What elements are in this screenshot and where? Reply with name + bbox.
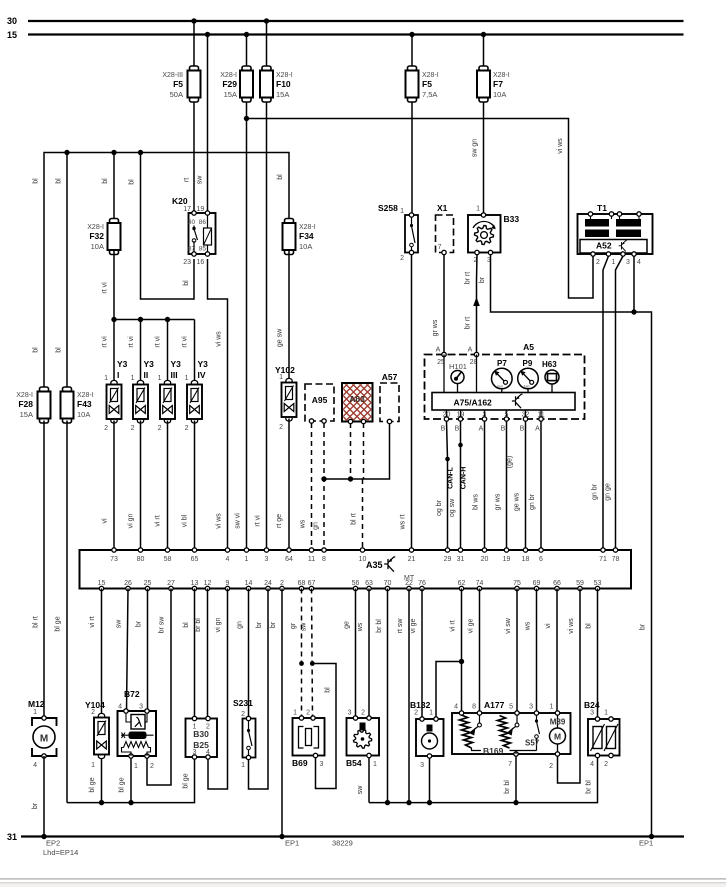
svg-text:br: br	[136, 620, 143, 627]
wire bl from rail to F43	[66, 153, 68, 391]
svg-text:br: br	[640, 623, 647, 630]
svg-text:4: 4	[118, 704, 122, 711]
temperature sensors B24	[588, 717, 620, 758]
wire bl screen from node to B69 pin 3	[312, 664, 336, 789]
svg-text:4: 4	[637, 259, 641, 266]
wire F5 7,5A to terminal 15	[411, 35, 413, 67]
svg-text:A63: A63	[349, 394, 365, 404]
wire og sw CAN-H from A5 pin 19 to A35 pin 31	[460, 421, 462, 550]
svg-text:15A: 15A	[224, 90, 237, 99]
svg-text:32: 32	[522, 412, 530, 419]
svg-text:38229: 38229	[332, 839, 353, 848]
svg-text:B54: B54	[346, 758, 362, 768]
fuse F5 7,5A X28-II	[406, 66, 419, 102]
ground node EP1 centre	[279, 834, 284, 839]
wire stub P9 to A75	[527, 389, 529, 393]
svg-text:br bl: br bl	[195, 618, 202, 632]
wire rt ge from Y102 pin 2 to A35 pin 64	[288, 419, 290, 551]
svg-text:67: 67	[308, 580, 316, 587]
wire vi gn from Y3 II to A35 pin 80	[140, 421, 142, 551]
node rail pin 22 wire	[406, 800, 411, 805]
svg-text:31: 31	[457, 556, 465, 563]
fuse F7 10A X28-I	[477, 66, 490, 102]
svg-text:br rt: br rt	[465, 272, 472, 285]
svg-text:ge: ge	[344, 621, 351, 629]
svg-text:Y3: Y3	[171, 359, 182, 369]
wire gn ge from A52 pin 3 to A35 pin 78	[616, 256, 624, 550]
lambda probe B72	[118, 709, 157, 758]
terminal 30 bus line	[28, 20, 684, 22]
svg-text:vi rt: vi rt	[450, 620, 457, 631]
svg-text:Y104: Y104	[85, 700, 105, 710]
wire sw from A35 pin 67 to B69 pin 2 (screened)	[312, 589, 313, 719]
wire ge sw from F34 to Y102 pin 1	[288, 251, 290, 382]
svg-text:br: br	[256, 621, 263, 628]
svg-text:23: 23	[183, 259, 191, 266]
svg-text:1: 1	[91, 762, 95, 769]
wire br from A35 pin 24 to S231 pin 1	[249, 589, 269, 790]
node branch to B132 pin 1	[459, 659, 464, 664]
node rail pin 70 wire	[385, 800, 390, 805]
svg-text:vi gn: vi gn	[128, 514, 135, 529]
svg-text:ws rt: ws rt	[400, 515, 407, 531]
svg-text:bl: bl	[183, 280, 190, 286]
wire rt vi to Y3 II	[140, 320, 142, 384]
svg-text:rt vi: rt vi	[182, 336, 189, 348]
svg-text:Y3: Y3	[198, 359, 209, 369]
direction arrow on br rt wire	[473, 297, 480, 306]
wire bl rt from F28 to M12 pin 1	[43, 421, 45, 719]
svg-text:10A: 10A	[77, 410, 90, 419]
svg-text:Lhd=EP14: Lhd=EP14	[43, 848, 78, 857]
svg-text:15: 15	[98, 580, 106, 587]
svg-text:H63: H63	[542, 360, 557, 369]
svg-text:vi ws: vi ws	[557, 138, 564, 154]
svg-text:og sw: og sw	[449, 498, 456, 517]
wire vi from Y3 I to A35 pin 73	[113, 421, 115, 551]
wire F7 to terminal 15	[483, 35, 485, 67]
svg-text:3: 3	[420, 762, 424, 769]
svg-text:M89: M89	[550, 718, 566, 727]
svg-text:70: 70	[384, 580, 392, 587]
svg-text:17: 17	[183, 206, 191, 213]
svg-text:sw vi: sw vi	[235, 513, 242, 529]
splice on CAN-H	[458, 443, 463, 448]
svg-text:gr ws: gr ws	[432, 319, 439, 336]
svg-text:M12: M12	[28, 699, 45, 709]
svg-text:2: 2	[91, 709, 95, 716]
wire rt vi to Y3 III	[167, 320, 169, 384]
sensor B30/B25	[186, 716, 218, 759]
svg-text:gn: gn	[313, 522, 320, 530]
svg-text:rt vi: rt vi	[102, 336, 109, 348]
injector Y3 IV	[187, 380, 202, 423]
svg-text:2: 2	[604, 761, 608, 768]
svg-text:ge sw: ge sw	[277, 328, 284, 347]
node rail F43	[64, 150, 69, 155]
node F29 branch to vi ws feed	[244, 116, 249, 121]
svg-text:F29: F29	[222, 79, 237, 89]
svg-text:(ge): (ge)	[507, 456, 514, 468]
switch S258	[405, 213, 418, 255]
svg-text:10A: 10A	[299, 242, 312, 251]
wire rt vi to Y3 I	[113, 320, 115, 384]
svg-text:53: 53	[594, 580, 602, 587]
svg-text:3: 3	[348, 710, 352, 717]
svg-text:69: 69	[533, 580, 541, 587]
wire stub pin 28 to A75	[476, 355, 478, 393]
svg-text:I: I	[117, 370, 119, 380]
svg-text:bl ge: bl ge	[183, 773, 190, 788]
svg-text:gn: gn	[237, 621, 244, 629]
wire bl from rail to F32	[113, 153, 115, 224]
svg-text:15A: 15A	[20, 410, 33, 419]
svg-text:3: 3	[139, 704, 143, 711]
svg-text:19: 19	[503, 556, 511, 563]
wire screen link A95-A63-A57	[324, 423, 390, 479]
wire vi ws from A35 pin 59 to M89 pin 2	[558, 589, 581, 784]
svg-text:IV: IV	[198, 370, 206, 380]
control unit A95 (dashed)	[305, 384, 334, 421]
wire gn from A35 pin 14 to S231 pin 2	[248, 589, 250, 719]
screen node B69 pin 2 wire	[310, 661, 315, 666]
svg-text:80: 80	[137, 556, 145, 563]
wire from F5 7,5A to S258 pin 1	[411, 102, 413, 215]
svg-text:bl: bl	[33, 178, 40, 184]
svg-text:63: 63	[365, 580, 373, 587]
wire rt vi to Y3 IV	[194, 320, 196, 384]
wire stub H63 to A75	[551, 384, 553, 393]
svg-text:bl ge: bl ge	[55, 616, 62, 631]
wire bl ge from F43 to supply rail	[66, 421, 68, 803]
svg-text:bl: bl	[129, 179, 136, 185]
svg-text:8: 8	[472, 704, 476, 711]
svg-text:4: 4	[590, 761, 594, 768]
node on 15 for F5 7,5A	[409, 32, 414, 37]
svg-text:Y3: Y3	[144, 359, 155, 369]
svg-text:vi bl: vi bl	[182, 514, 189, 527]
svg-text:F34: F34	[299, 231, 314, 241]
svg-text:vi gn: vi gn	[215, 618, 222, 633]
svg-text:bl ws: bl ws	[473, 494, 480, 510]
svg-text:bl: bl	[277, 174, 284, 180]
output stage A52	[580, 240, 647, 254]
control unit A75/A162 in cluster	[432, 393, 575, 411]
svg-text:7: 7	[438, 244, 442, 251]
svg-text:ws: ws	[525, 621, 532, 631]
svg-text:vi rt: vi rt	[89, 616, 96, 627]
svg-text:rt vi: rt vi	[102, 282, 109, 294]
node rail A177 pin 7	[513, 800, 518, 805]
svg-text:br rt: br rt	[465, 317, 472, 330]
svg-text:A35: A35	[366, 560, 383, 570]
svg-text:bl: bl	[183, 622, 190, 628]
svg-text:22: 22	[405, 580, 413, 587]
wire vi from A35 pin 66 to M89 pin 1	[556, 589, 558, 714]
svg-text:F43: F43	[77, 399, 92, 409]
svg-text:bl: bl	[33, 347, 40, 353]
svg-text:1: 1	[373, 761, 377, 768]
node rail Y3 II	[138, 317, 143, 322]
fuse F34 10A X28-I	[283, 219, 296, 255]
svg-text:2: 2	[150, 763, 154, 770]
svg-text:X28-I: X28-I	[77, 392, 94, 399]
svg-text:6: 6	[539, 556, 543, 563]
wire vi ge from A35 pin 76 to B132 pin 2	[421, 589, 423, 720]
svg-text:78: 78	[612, 556, 620, 563]
svg-text:rpm: rpm	[497, 385, 503, 389]
svg-text:bl ge: bl ge	[89, 777, 96, 792]
svg-text:bl: bl	[56, 347, 63, 353]
svg-text:gn br: gn br	[592, 483, 599, 500]
svg-text:S231: S231	[233, 698, 253, 708]
svg-text:br bl: br bl	[586, 780, 593, 794]
svg-text:CAN-L: CAN-L	[448, 466, 455, 488]
svg-text:4: 4	[226, 556, 230, 563]
relay K20	[183, 206, 215, 266]
svg-text:vi: vi	[102, 518, 109, 524]
A63 terminals	[348, 419, 352, 423]
wire ge ws from A5 pin 32 to A35 pin 18	[525, 421, 527, 550]
node supply rail Y104	[99, 800, 104, 805]
terminal 31 bus line	[21, 835, 684, 837]
svg-text:rt ge: rt ge	[276, 514, 283, 528]
svg-text:3: 3	[320, 761, 324, 768]
wire stub H101 to A75	[457, 384, 459, 393]
connector A57 (dashed)	[380, 383, 399, 422]
svg-text:bl rt: bl rt	[351, 513, 358, 525]
svg-text:Y3: Y3	[117, 359, 128, 369]
svg-text:3: 3	[483, 412, 487, 419]
svg-text:bl: bl	[56, 178, 63, 184]
svg-text:br: br	[479, 276, 486, 283]
svg-text:fuel: fuel	[524, 385, 530, 389]
svg-text:2: 2	[158, 425, 162, 432]
wire rt from terminal 15 to K20 pin 17	[207, 35, 209, 214]
fuse F5 50A X28-III	[188, 66, 201, 102]
svg-text:4: 4	[33, 762, 37, 769]
svg-text:21: 21	[408, 556, 416, 563]
svg-text:A57: A57	[382, 372, 398, 382]
svg-text:A177: A177	[484, 700, 505, 710]
svg-text:2: 2	[185, 425, 189, 432]
A95 terminals	[309, 419, 313, 423]
svg-text:Y102: Y102	[275, 365, 295, 375]
svg-text:2: 2	[414, 710, 418, 717]
switch S231	[243, 716, 256, 759]
wire stub pin 25 to A75	[443, 355, 445, 393]
svg-text:3: 3	[529, 704, 533, 711]
svg-text:30: 30	[188, 219, 196, 226]
svg-text:bl: bl	[586, 623, 593, 629]
wire rt sw from A35 pin 22 to ground rail	[408, 589, 410, 803]
svg-text:br: br	[32, 802, 39, 809]
svg-text:68: 68	[298, 580, 306, 587]
svg-text:sw: sw	[197, 175, 204, 185]
sensor B132	[416, 717, 444, 758]
svg-text:65: 65	[191, 556, 199, 563]
svg-text:br sw: br sw	[159, 616, 166, 634]
screen node B69 pin 1 wire	[299, 661, 304, 666]
node rail Y3 I	[111, 317, 116, 322]
wire sw from A35 pin 26 to B72 pin 4	[127, 589, 129, 712]
node on 30 for F5	[191, 18, 196, 23]
svg-text:26: 26	[124, 580, 132, 587]
wire gn br from A5 pin 11 to A35 pin 6	[540, 421, 542, 550]
svg-text:1: 1	[185, 375, 189, 382]
fuse F29 15A X28-I	[240, 66, 253, 102]
svg-text:3: 3	[265, 556, 269, 563]
injector feed rail	[114, 319, 195, 321]
wire br from B33 pin 3 to ground EP1	[491, 255, 652, 837]
svg-text:76: 76	[418, 580, 426, 587]
A5 top terminals	[442, 352, 446, 356]
svg-text:II: II	[144, 370, 149, 380]
wire gr ws from X1 pin 7 to A5 pin 25	[443, 255, 445, 355]
svg-text:2: 2	[280, 580, 284, 587]
wire br bl from A177 pin 7 to rail	[515, 754, 517, 803]
svg-text:10: 10	[359, 556, 367, 563]
wire screen stub from A63 pin 1	[350, 423, 352, 479]
svg-text:vi ws: vi ws	[568, 618, 575, 634]
svg-text:25: 25	[144, 580, 152, 587]
svg-text:19: 19	[457, 412, 465, 419]
wire sw vi from F29 down to A35 pin 1	[246, 102, 248, 550]
wire br rt from B33 pin 2 to A5 pin 28	[476, 255, 479, 355]
valve Y104	[94, 713, 109, 758]
svg-text:br: br	[270, 621, 277, 628]
svg-text:30: 30	[7, 16, 17, 26]
wire vi rt from A35 pin 62 to A177 pin 4	[461, 589, 463, 714]
svg-text:gr ws: gr ws	[495, 493, 502, 510]
wire branch to B132 pin 1	[436, 662, 462, 720]
svg-text:16: 16	[197, 259, 205, 266]
A35 top pin terminals and numbers	[110, 548, 619, 563]
svg-text:3: 3	[590, 710, 594, 717]
wire bl from A35 pin 13 to B30 pin 1	[194, 589, 196, 719]
svg-text:1: 1	[241, 762, 245, 769]
node on 15 for F29	[244, 32, 249, 37]
svg-text:50A: 50A	[170, 90, 183, 99]
speed sensor B54	[347, 716, 380, 758]
wire bl ge from Y104 pin 1 to supply rail	[101, 756, 103, 803]
wire ws from A95 pin 1 to A35 pin 11 (screened)	[311, 423, 313, 550]
svg-text:bl rt: bl rt	[33, 616, 40, 628]
svg-text:ws: ws	[357, 622, 364, 632]
svg-text:vi ws: vi ws	[216, 513, 223, 529]
svg-text:85: 85	[199, 246, 207, 253]
svg-text:58: 58	[164, 556, 172, 563]
svg-text:F10: F10	[276, 79, 291, 89]
wire br from M12 pin 4 to ground EP2	[43, 756, 45, 837]
svg-text:rt vi: rt vi	[255, 515, 262, 527]
svg-text:2: 2	[306, 710, 310, 717]
heater coil B169 left	[460, 715, 473, 748]
svg-text:27: 27	[167, 580, 175, 587]
svg-text:12: 12	[204, 580, 212, 587]
svg-text:F28: F28	[18, 399, 33, 409]
svg-text:X1: X1	[437, 203, 448, 213]
wire sw from B54 pin 1 to rail	[368, 756, 370, 803]
svg-text:rt vi: rt vi	[128, 336, 135, 348]
svg-text:24: 24	[264, 580, 272, 587]
svg-text:8: 8	[322, 556, 326, 563]
svg-text:2: 2	[400, 255, 404, 262]
svg-text:10A: 10A	[493, 90, 506, 99]
svg-text:M: M	[554, 732, 561, 742]
svg-text:X28-I: X28-I	[276, 72, 293, 79]
connector X1 (dashed)	[436, 215, 454, 253]
svg-text:F5: F5	[173, 79, 183, 89]
svg-text:7,5A: 7,5A	[422, 90, 437, 99]
wire F5 50A to terminal 30	[193, 21, 195, 66]
node supply rail B72	[128, 800, 133, 805]
fuse F28 15A X28-I	[38, 387, 51, 423]
svg-text:B33: B33	[504, 214, 520, 224]
svg-text:ws: ws	[300, 519, 307, 529]
svg-text:rt vi: rt vi	[155, 336, 162, 348]
svg-text:13: 13	[191, 580, 199, 587]
svg-text:1: 1	[604, 710, 608, 717]
svg-text:vi rt: vi rt	[155, 515, 162, 526]
svg-text:X28-I: X28-I	[493, 72, 510, 79]
wire gr ws from A5 pin 5 to A35 pin 19	[506, 421, 508, 550]
wire gn br from A52 pin 1 to A35 pin 71	[603, 256, 609, 550]
svg-text:P9: P9	[523, 359, 533, 368]
svg-text:20: 20	[481, 556, 489, 563]
ground node EP1 right	[649, 834, 654, 839]
wire rail from K20 output 87 feeding F28 F32 F34	[44, 153, 289, 391]
svg-text:K20: K20	[172, 196, 188, 206]
sensor B33	[468, 213, 501, 255]
svg-text:CAN-H: CAN-H	[461, 467, 468, 490]
svg-text:bl: bl	[102, 178, 109, 184]
svg-text:B169: B169	[483, 746, 504, 756]
svg-text:br bl: br bl	[504, 780, 511, 794]
svg-text:S57: S57	[525, 739, 540, 748]
svg-text:62: 62	[458, 580, 466, 587]
tap arrow left from pin 8	[479, 715, 481, 723]
svg-text:11: 11	[308, 556, 315, 563]
svg-text:A: A	[479, 426, 484, 433]
wire gn from A95 pin 2 to A35 pin 8 (screened)	[323, 423, 325, 550]
svg-text:75: 75	[513, 580, 521, 587]
svg-text:86: 86	[199, 219, 207, 226]
svg-text:sw: sw	[357, 785, 364, 795]
svg-text:M: M	[40, 734, 48, 745]
svg-text:59: 59	[576, 580, 584, 587]
node on 15 for K20 wire	[205, 32, 210, 37]
svg-text:1: 1	[612, 259, 616, 266]
B169 bottom connector to pin 7	[472, 748, 537, 754]
motor M89	[550, 728, 566, 744]
A52 terminals	[591, 252, 595, 256]
node rail K20 drop	[138, 150, 143, 155]
svg-text:sw: sw	[116, 619, 123, 629]
svg-text:S258: S258	[378, 203, 398, 213]
svg-text:11: 11	[537, 412, 544, 419]
wire ws from A35 pin 63 to B54 pin 2	[368, 589, 370, 719]
ground node EP2	[41, 834, 46, 839]
terminal 15 bus line	[28, 33, 684, 35]
wire ws from A35 pin 69 to S57 pin 3	[536, 589, 538, 714]
svg-text:rt sw: rt sw	[397, 618, 404, 634]
svg-text:1: 1	[158, 375, 162, 382]
wire bl from rail to K20 pin 23	[141, 153, 195, 300]
svg-text:5: 5	[509, 704, 513, 711]
wire vi rt from Y3 III to A35 pin 58	[167, 421, 169, 551]
fuse F32 10A X28-I	[108, 219, 121, 255]
